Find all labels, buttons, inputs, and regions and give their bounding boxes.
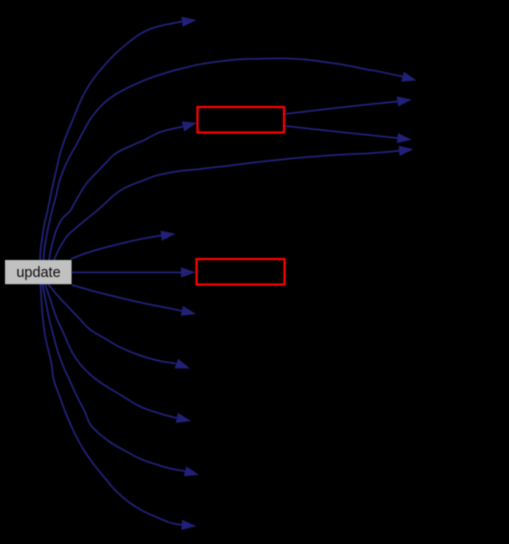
svg-text:update: update: [16, 264, 60, 281]
